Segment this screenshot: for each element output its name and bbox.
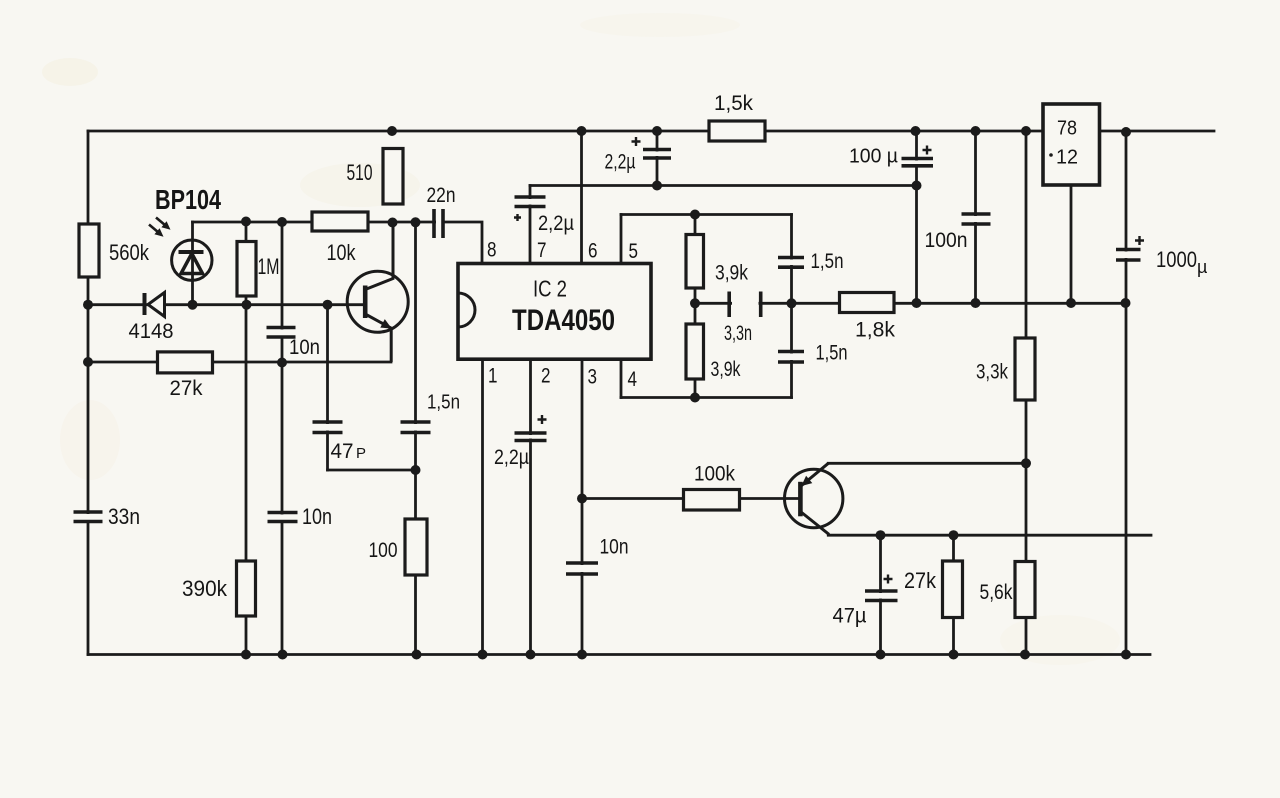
svg-text:100n: 100n <box>925 229 968 252</box>
svg-text:1,8k: 1,8k <box>855 319 895 342</box>
svg-text:10n: 10n <box>302 504 332 529</box>
svg-text:100: 100 <box>369 539 398 562</box>
svg-text:27k: 27k <box>904 568 937 593</box>
svg-text:100k: 100k <box>694 463 735 486</box>
svg-text:10n: 10n <box>600 536 629 559</box>
svg-text:7: 7 <box>537 239 547 262</box>
svg-text:1,5n: 1,5n <box>811 250 844 273</box>
svg-text:22n: 22n <box>427 184 456 207</box>
svg-text:P: P <box>356 445 366 462</box>
svg-text:1,5k: 1,5k <box>714 92 753 115</box>
svg-text:1,5n: 1,5n <box>816 342 848 365</box>
svg-text:4: 4 <box>628 368 638 391</box>
svg-text:2,2µ: 2,2µ <box>494 446 529 469</box>
svg-text:3,3n: 3,3n <box>724 322 752 345</box>
svg-text:12: 12 <box>1056 147 1078 169</box>
svg-text:4148: 4148 <box>129 320 174 343</box>
svg-text:27k: 27k <box>170 377 203 400</box>
svg-text:3,3k: 3,3k <box>976 361 1008 384</box>
svg-text:2,2µ: 2,2µ <box>538 212 574 235</box>
svg-text:TDA4050: TDA4050 <box>512 304 615 337</box>
svg-text:10k: 10k <box>327 240 357 265</box>
svg-text:2: 2 <box>541 365 551 388</box>
svg-text:1: 1 <box>488 365 498 388</box>
svg-text:1M: 1M <box>258 254 280 279</box>
svg-text:3: 3 <box>588 366 598 389</box>
svg-text:100 µ: 100 µ <box>849 146 898 168</box>
svg-text:BP104: BP104 <box>155 184 221 215</box>
svg-text:6: 6 <box>588 240 598 263</box>
svg-text:3,9k: 3,9k <box>711 358 741 381</box>
svg-text:µ: µ <box>1197 257 1207 277</box>
svg-text:390k: 390k <box>182 576 228 601</box>
svg-text:47µ: 47µ <box>833 605 867 628</box>
svg-text:IC 2: IC 2 <box>533 276 567 302</box>
svg-text:5,6k: 5,6k <box>980 581 1013 604</box>
svg-text:78: 78 <box>1057 118 1077 140</box>
svg-text:510: 510 <box>347 160 373 185</box>
svg-text:1,5n: 1,5n <box>427 392 460 414</box>
svg-text:10n: 10n <box>289 336 320 359</box>
svg-text:560k: 560k <box>109 240 150 265</box>
svg-text:8: 8 <box>487 239 497 262</box>
svg-text:33n: 33n <box>108 504 140 529</box>
svg-text:47: 47 <box>331 440 354 463</box>
svg-text:1000: 1000 <box>1156 247 1197 272</box>
svg-text:5: 5 <box>629 240 639 263</box>
svg-text:2,2µ: 2,2µ <box>605 151 636 174</box>
svg-text:3,9k: 3,9k <box>715 262 748 285</box>
